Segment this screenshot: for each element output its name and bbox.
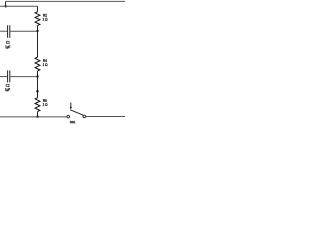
- label SW1: [70, 121, 75, 123]
- wire stub from top rail: [5, 1, 7, 6]
- junction dot mid node: [36, 90, 38, 92]
- wire bottom rail right: [86, 116, 126, 118]
- wire node to mid junction: [37, 77, 39, 92]
- wire mid node to R6: [37, 91, 39, 98]
- value label 1 ohm of R4: [43, 63, 48, 66]
- capacitor C2 left lead wire: [0, 76, 8, 78]
- wire top rail: [6, 0, 125, 2]
- switch SW1 actuator stem: [70, 103, 72, 107]
- value label 1uF of C2: [5, 88, 10, 92]
- wire bottom rail left: [0, 116, 67, 118]
- wire node to R4: [37, 31, 39, 57]
- label R6: [43, 99, 47, 102]
- junction dot bottom node: [36, 116, 38, 118]
- capacitor C1 left lead wire: [0, 30, 8, 32]
- wire upper horizontal: [0, 5, 38, 7]
- value label 1 ohm of R2: [43, 18, 48, 21]
- switch SW1 left contact: [67, 115, 70, 118]
- value label 1 ohm of R6: [43, 103, 48, 106]
- wire R2 to node: [37, 26, 39, 31]
- resistor R2: [35, 12, 40, 26]
- switch SW1 right contact: [83, 115, 86, 118]
- junction dot node C2/R4: [36, 75, 38, 77]
- capacitor C1: [8, 25, 10, 38]
- wire lead to R2: [37, 6, 39, 11]
- junction dot node C1/R2: [36, 30, 38, 32]
- label R4: [43, 59, 47, 62]
- capacitor C2 right lead wire: [10, 76, 38, 78]
- label C2: [6, 84, 10, 87]
- switch SW1 lever: [70, 110, 83, 115]
- capacitor C2: [8, 70, 10, 82]
- capacitor C1 right lead wire: [10, 30, 38, 32]
- wire R6 to bottom rail: [37, 112, 39, 117]
- resistor R4: [35, 57, 40, 71]
- junction dot at stub: [5, 5, 7, 7]
- label R2: [43, 14, 47, 17]
- value label 1uF of C1: [5, 45, 10, 49]
- switch SW1 actuator arrowhead: [70, 107, 72, 110]
- resistor R6: [35, 98, 40, 112]
- label C1: [6, 41, 10, 44]
- wire R4 to node: [37, 71, 39, 76]
